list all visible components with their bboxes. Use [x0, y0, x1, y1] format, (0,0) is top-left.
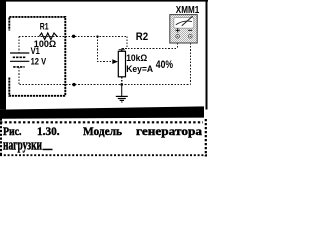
- caption dashed border right: [205, 119, 207, 157]
- page frame: right line: [206, 0, 208, 110]
- junction dot bottom rail at ground: [120, 83, 123, 86]
- junction dot node A top: [72, 35, 75, 38]
- generator model box: [9, 17, 65, 96]
- resistor R1 zigzag: [39, 33, 57, 40]
- minus mark: [188, 29, 192, 31]
- caption dashed border top: [0, 121, 203, 123]
- wire: top node from battery through R1 to corner: [19, 35, 127, 37]
- wire: R2 wiper run from top node: [98, 36, 113, 61]
- svg-text:40%: 40%: [156, 59, 173, 71]
- junction dot bottom rail left: [72, 83, 75, 86]
- battery icon white background covering box edge: [8, 31, 31, 78]
- svg-text:XMM1: XMM1: [176, 5, 200, 16]
- svg-text:Рис.: Рис.: [3, 124, 22, 138]
- caption trailing dash: [43, 149, 53, 151]
- wire: battery top stub: [18, 36, 20, 52]
- meter needle: [182, 16, 193, 26]
- caption text line 1: [3, 124, 202, 138]
- wire: battery bottom stub: [18, 67, 20, 85]
- meter dial arc: [176, 21, 192, 25]
- svg-text:Модель: Модель: [83, 124, 123, 138]
- battery V1 plates: [10, 52, 29, 54]
- plus mark: [176, 28, 180, 32]
- caption dashed border bottom: [0, 154, 207, 156]
- caption dashed border left: [0, 119, 2, 157]
- multimeter XMM1: [170, 15, 197, 43]
- wire: meter minus lead: [190, 43, 192, 85]
- ground: [116, 85, 128, 103]
- junction dot at wiper branch: [96, 35, 98, 37]
- page frame: top line: [0, 0, 208, 2]
- svg-text:1.30.: 1.30.: [37, 124, 60, 138]
- R2 top pin cap: [119, 49, 125, 51]
- svg-text:Key=A: Key=A: [126, 63, 153, 74]
- minus terminal: [189, 35, 193, 39]
- wire: bottom rail: [19, 84, 190, 86]
- potentiometer R2 body: [118, 51, 125, 77]
- svg-text:генератора: генератора: [136, 124, 202, 138]
- svg-text:10kΩ: 10kΩ: [126, 52, 147, 63]
- svg-text:R1: R1: [40, 22, 49, 33]
- R2 bottom stub: [121, 77, 123, 85]
- svg-text:R2: R2: [136, 31, 148, 43]
- caption heavy top band: [0, 106, 204, 118]
- R2 wiper arrowhead: [112, 59, 118, 64]
- page frame: left black bar: [0, 0, 6, 110]
- svg-text:нагрузки: нагрузки: [3, 138, 42, 154]
- wire: node corner down to R2 top and meter plus: [122, 36, 178, 51]
- wire: meter plus lead: [177, 43, 179, 49]
- svg-text:12 V: 12 V: [31, 56, 47, 67]
- plus terminal: [176, 35, 180, 39]
